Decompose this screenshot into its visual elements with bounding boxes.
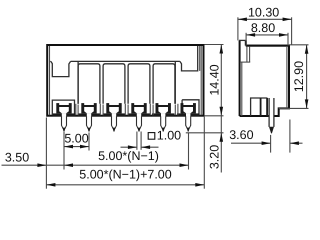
plug slot 2 bbox=[78, 64, 100, 104]
left polarization notch bbox=[51, 61, 71, 76]
dim 3.60 extension line pin center bbox=[270, 135, 272, 153]
dim 5.00 dimension line bbox=[64, 146, 89, 148]
ext line pin1 center bbox=[63, 132, 65, 170]
dim 10.30 extension lines bbox=[237, 17, 239, 40]
dim 14.40 bottom extension line bbox=[204, 115, 223, 117]
dim 5.00*(N-1)+7.00 dimension line bbox=[46, 184, 204, 186]
side view column top edge bbox=[239, 39, 246, 41]
slot1 left edge line bbox=[77, 62, 79, 104]
pin 4 front view bbox=[128, 103, 150, 132]
slot4 right edge line bbox=[174, 62, 176, 104]
ext line pin2 center bbox=[88, 133, 90, 151]
plug slot 3 bbox=[103, 64, 125, 104]
cell 1 cavity box bbox=[52, 100, 74, 115]
side view inner line left bbox=[241, 62, 243, 116]
dim 3.20 dimension line bbox=[220, 116, 222, 173]
svg-text:1.00: 1.00 bbox=[157, 128, 181, 142]
svg-text:14.40: 14.40 bbox=[208, 64, 222, 95]
svg-text:5.00*(N−1)+7.00: 5.00*(N−1)+7.00 bbox=[79, 168, 171, 182]
cavity divider walls bbox=[75, 104, 77, 115]
svg-text:3.50: 3.50 bbox=[5, 150, 29, 164]
dim square-1.00 leader right bbox=[141, 146, 158, 148]
side view pin tab block bbox=[251, 98, 268, 116]
svg-text:10.30: 10.30 bbox=[248, 5, 279, 19]
pin 2 front view bbox=[78, 103, 100, 132]
right polarization notch bbox=[180, 46, 198, 71]
dim square-1.00 leader left bbox=[121, 146, 137, 148]
dim 3.60 leader right bbox=[290, 142, 303, 144]
dim 3.60 leader left bbox=[231, 142, 271, 144]
pin 5 front view bbox=[152, 103, 174, 132]
pin 6 front view bbox=[177, 103, 199, 132]
dim square-1.00 extension lines (pin4 sides) bbox=[136, 132, 138, 150]
side view inner line right bbox=[286, 46, 288, 108]
side view pin shank bbox=[269, 115, 273, 118]
dim 12.90 dimension line bbox=[306, 45, 308, 109]
svg-text:3.20: 3.20 bbox=[208, 145, 222, 169]
dim 5.00*(N-1) dimension line bbox=[64, 164, 189, 166]
svg-text:5.00*(N−1): 5.00*(N−1) bbox=[98, 149, 159, 163]
dim 12.90 extension lines bbox=[289, 44, 309, 46]
pin tip level extension line bbox=[186, 132, 224, 134]
front view inner wall left bbox=[49, 46, 51, 115]
cell 6 cavity box bbox=[182, 100, 199, 115]
dim square-1.00 label bbox=[148, 133, 155, 140]
dim 8.80 extension lines bbox=[245, 33, 247, 46]
pin 1 front view bbox=[53, 103, 75, 132]
side view outline bbox=[240, 40, 289, 116]
svg-text:5.00: 5.00 bbox=[64, 132, 88, 146]
pin 3 front view bbox=[103, 103, 125, 132]
dim 10.30 dimension line bbox=[238, 18, 292, 20]
front view top inner wall line bbox=[71, 60, 180, 62]
dim 14.40 top extension line bbox=[204, 44, 223, 46]
bottom width extension lines bbox=[45, 118, 47, 189]
svg-text:12.90: 12.90 bbox=[292, 61, 306, 92]
dim 8.80 dimension line bbox=[246, 34, 288, 36]
side view top edge thick bbox=[246, 45, 289, 47]
front view housing outline bbox=[47, 45, 203, 116]
dim 14.40 dimension line bbox=[220, 45, 222, 116]
ext line pin6 center bbox=[188, 133, 190, 170]
plug slot 4 bbox=[128, 64, 150, 104]
svg-text:3.60: 3.60 bbox=[229, 128, 253, 142]
dim 3.50 leader line bbox=[2, 164, 65, 166]
dim 3.60 extension line right edge bbox=[289, 120, 291, 153]
plug slot 5 bbox=[153, 64, 175, 104]
svg-text:8.80: 8.80 bbox=[251, 21, 275, 35]
side view inner step notch bbox=[246, 46, 248, 62]
front view inner wall right bbox=[200, 46, 202, 115]
